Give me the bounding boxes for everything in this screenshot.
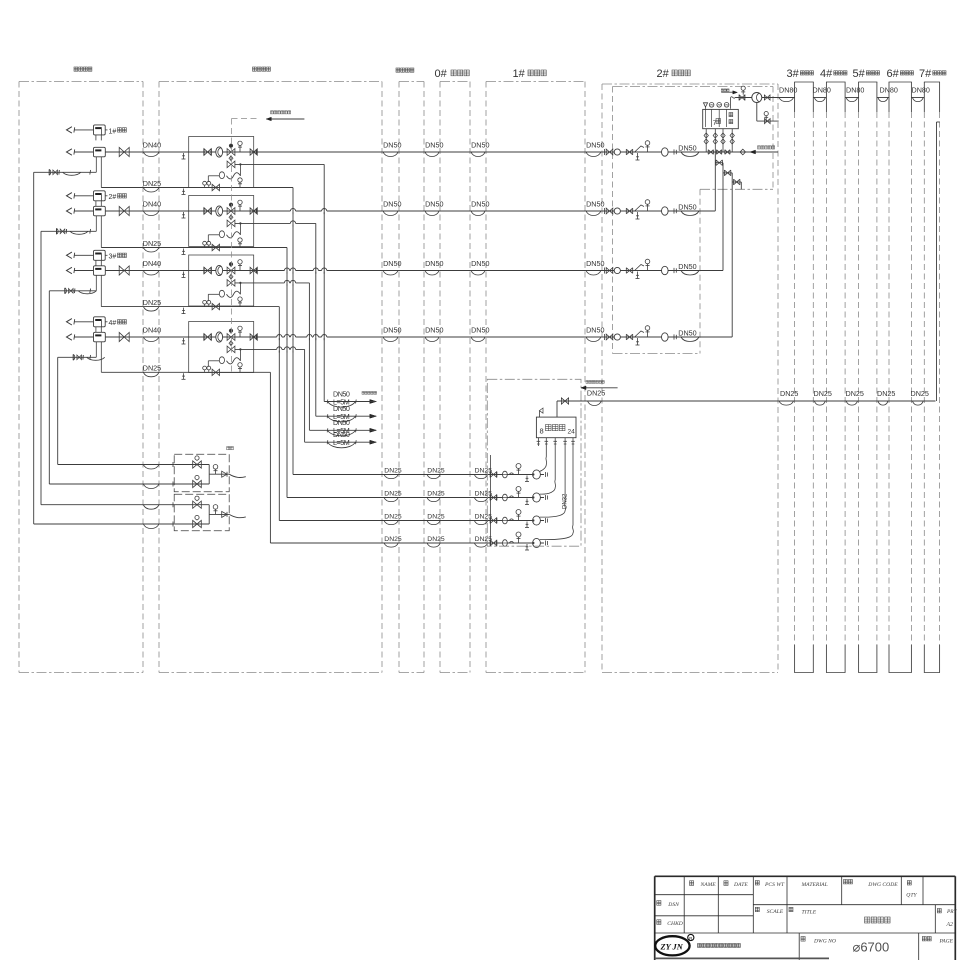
svg-text:DN80: DN80 <box>880 86 898 95</box>
svg-text:QTY: QTY <box>906 893 917 899</box>
svg-text:DN32: DN32 <box>563 493 569 509</box>
svg-text:DN50: DN50 <box>471 325 489 334</box>
svg-text:DN80: DN80 <box>779 86 797 95</box>
svg-text:DN80: DN80 <box>846 86 864 95</box>
svg-text:A2: A2 <box>946 922 954 928</box>
svg-text:CHKD: CHKD <box>667 921 683 927</box>
svg-text:DWG NO: DWG NO <box>813 938 836 944</box>
svg-text:4#: 4# <box>109 320 117 327</box>
svg-text:8: 8 <box>540 427 544 436</box>
svg-text:DN25: DN25 <box>427 514 445 521</box>
svg-text:DN50: DN50 <box>471 199 489 208</box>
svg-text:DN50: DN50 <box>586 259 604 268</box>
svg-text:DN80: DN80 <box>912 86 930 95</box>
svg-text:DN25: DN25 <box>143 179 161 188</box>
svg-text:DN25: DN25 <box>587 388 605 397</box>
svg-text:PRT: PRT <box>946 909 958 915</box>
svg-text:4#: 4# <box>820 68 833 80</box>
svg-text:DN25: DN25 <box>427 491 445 498</box>
svg-text:DSN: DSN <box>667 902 679 908</box>
svg-text:6#: 6# <box>887 68 900 80</box>
svg-text:DN50: DN50 <box>425 140 443 149</box>
svg-text:DN25: DN25 <box>143 239 161 248</box>
svg-text:TITLE: TITLE <box>802 910 817 916</box>
svg-text:DN25: DN25 <box>384 536 402 543</box>
svg-text:24: 24 <box>568 429 576 436</box>
svg-text:DN25: DN25 <box>143 298 161 307</box>
svg-text:2#: 2# <box>109 194 117 201</box>
svg-text:5#: 5# <box>853 68 866 80</box>
svg-text:DN25: DN25 <box>911 389 929 398</box>
svg-text:PCS WT: PCS WT <box>764 882 785 888</box>
svg-text:0#: 0# <box>435 68 448 80</box>
svg-text:DN50: DN50 <box>586 199 604 208</box>
svg-text:DN50: DN50 <box>425 199 443 208</box>
svg-text:DN50: DN50 <box>678 144 696 153</box>
svg-text:DN25: DN25 <box>877 389 895 398</box>
svg-text:DN50: DN50 <box>678 203 696 212</box>
svg-text:DN25: DN25 <box>814 389 832 398</box>
svg-text:DN50: DN50 <box>383 325 401 334</box>
svg-text:DN40: DN40 <box>143 259 161 268</box>
svg-text:DN25: DN25 <box>384 468 402 475</box>
svg-text:DATE: DATE <box>733 882 748 888</box>
svg-text:DN25: DN25 <box>384 491 402 498</box>
svg-text:DN25: DN25 <box>846 389 864 398</box>
svg-text:DN25: DN25 <box>427 536 445 543</box>
svg-text:DN50: DN50 <box>586 140 604 149</box>
svg-text:DN40: DN40 <box>143 199 161 208</box>
svg-text:1#: 1# <box>513 68 526 80</box>
svg-text:7#: 7# <box>919 68 932 80</box>
svg-text:DN50: DN50 <box>383 199 401 208</box>
svg-text:3#: 3# <box>109 254 117 261</box>
svg-text:DN25: DN25 <box>427 468 445 475</box>
svg-text:DN25: DN25 <box>475 536 493 543</box>
svg-text:2#: 2# <box>657 68 670 80</box>
svg-text:SCALE: SCALE <box>767 909 784 915</box>
svg-text:DN50: DN50 <box>471 259 489 268</box>
svg-text:DWG CODE: DWG CODE <box>867 882 898 888</box>
svg-text:DN25: DN25 <box>143 364 161 373</box>
svg-text:DN50: DN50 <box>425 259 443 268</box>
svg-text:DN25: DN25 <box>475 468 493 475</box>
svg-text:DN40: DN40 <box>143 325 161 334</box>
svg-text:DN40: DN40 <box>143 140 161 149</box>
svg-text:DN50: DN50 <box>383 259 401 268</box>
svg-text:DN50: DN50 <box>471 140 489 149</box>
svg-text:MATERIAL: MATERIAL <box>801 882 828 888</box>
svg-text:DN50: DN50 <box>383 140 401 149</box>
svg-text:DN50: DN50 <box>678 262 696 271</box>
svg-text:DN25: DN25 <box>780 389 798 398</box>
svg-text:⌀6700: ⌀6700 <box>853 939 890 954</box>
svg-text:DN50: DN50 <box>586 325 604 334</box>
svg-text:DN50: DN50 <box>425 325 443 334</box>
svg-text:DN80: DN80 <box>813 86 831 95</box>
svg-text:1#: 1# <box>109 128 117 135</box>
svg-text:3#: 3# <box>787 68 800 80</box>
svg-text:PAGE: PAGE <box>939 938 954 944</box>
svg-text:NAME: NAME <box>700 882 717 888</box>
svg-text:DN25: DN25 <box>475 514 493 521</box>
svg-text:L=5M: L=5M <box>333 438 350 447</box>
svg-text:ZY JN: ZY JN <box>660 942 684 951</box>
svg-text:DN25: DN25 <box>475 491 493 498</box>
svg-text:DN25: DN25 <box>384 514 402 521</box>
svg-text:DN50: DN50 <box>678 329 696 338</box>
svg-text:R: R <box>689 936 692 941</box>
